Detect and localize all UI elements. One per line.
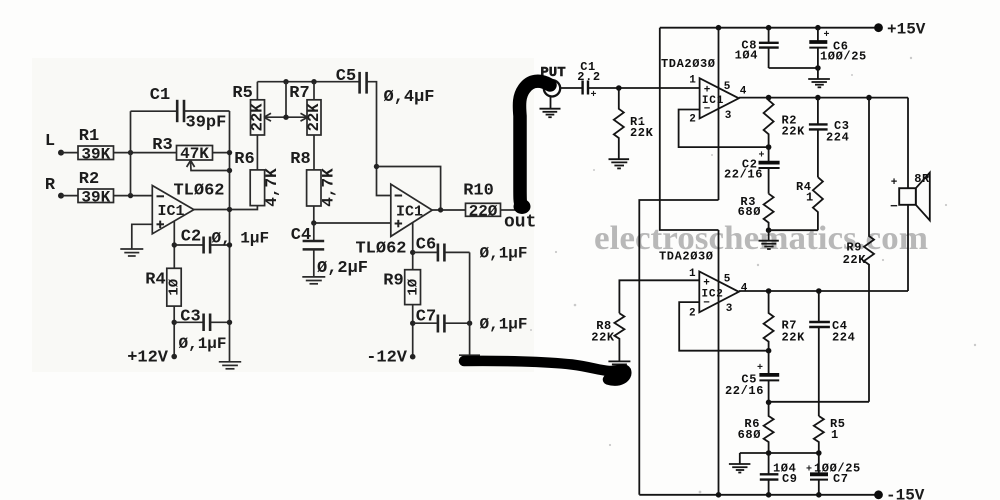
svg-text:3: 3: [726, 303, 733, 315]
speaker labels: [890, 172, 930, 214]
svg-text:1Ø: 1Ø: [167, 278, 183, 295]
resistor R5 labels: [830, 417, 846, 442]
resistor R4 label: [145, 271, 165, 290]
junction dot C3 tap: [172, 320, 177, 325]
node L label: [45, 132, 55, 151]
svg-text:R10: R10: [463, 182, 494, 201]
IC2 label TDA2030: [659, 250, 714, 264]
svg-text:out: out: [504, 213, 536, 233]
ground under R3: [759, 230, 779, 249]
capacitor C6 electrolytic: [809, 28, 829, 68]
svg-text:-12V: -12V: [366, 349, 408, 368]
svg-text:5: 5: [724, 81, 731, 93]
svg-text:TLØ62: TLØ62: [173, 182, 224, 201]
wire R3 right: [213, 152, 230, 154]
wire vertical bus x=229.5: [229, 111, 231, 362]
capacitor C8: [759, 28, 779, 68]
wire IC1 pin2 feedback loop: [679, 110, 769, 148]
node X junction dot: [128, 150, 133, 155]
svg-text:R2: R2: [79, 170, 99, 189]
svg-text:1: 1: [689, 268, 696, 280]
C6 value 0,1µF: [480, 245, 528, 263]
node +15V terminal: [874, 21, 926, 39]
svg-text:−: −: [890, 199, 898, 214]
svg-text:8R: 8R: [914, 172, 930, 186]
resistor R2 zigzag: [764, 98, 774, 147]
svg-text:−: −: [703, 298, 710, 310]
wire speaker bottom to IC2 output: [907, 205, 909, 291]
IC1 pin and body labels: [689, 75, 746, 126]
resistor R2 labels: [782, 114, 806, 139]
capacitor C5 labels: [725, 373, 764, 399]
resistor R7 zigzag: [764, 291, 774, 351]
svg-text:+: +: [757, 363, 763, 374]
svg-text:+: +: [891, 177, 898, 189]
wiper arrowhead into R5: [264, 113, 271, 121]
resistor R9 box: [405, 270, 422, 305]
svg-text:1: 1: [689, 75, 696, 87]
svg-text:5: 5: [724, 274, 731, 286]
capacitor C6 labels: [820, 40, 867, 64]
wiper arrowhead into R7: [301, 113, 308, 121]
C2 value 0,1µF: [212, 230, 270, 248]
wire R input to R2: [61, 195, 78, 197]
junction dot C2 tap: [172, 242, 177, 247]
wire R2 to op-amp inverting input: [114, 195, 153, 197]
junction dot C7 right: [467, 321, 472, 326]
input terminal circle: [544, 80, 560, 96]
ground left of C9: [729, 453, 751, 473]
svg-text:R3: R3: [152, 136, 172, 155]
capacitor C2 labels: [724, 158, 763, 182]
resistor R8 4,7K box: [307, 168, 338, 207]
svg-text:TDA2Ø3Ø: TDA2Ø3Ø: [661, 57, 716, 71]
svg-text:22K: 22K: [782, 125, 806, 139]
wire vertical X to X2: [130, 111, 132, 195]
capacitor C4 plates: [303, 223, 325, 277]
resistor R9 label: [383, 272, 403, 291]
wire C8 to C6 ground link: [769, 65, 821, 71]
svg-text:Ø,1µF: Ø,1µF: [480, 245, 528, 263]
wire IC1 pin3 to -15V rail: [639, 200, 718, 495]
capacitor C3 label: [180, 307, 200, 326]
ground under C6 C7 bus: [459, 355, 480, 363]
capacitor C5 plates: [360, 72, 367, 94]
junction dot output on bus: [227, 207, 232, 212]
wire rail down to IC2 pin5 jog: [660, 28, 719, 230]
svg-text:+: +: [591, 90, 597, 101]
wire R6 top to R5 bottom: [256, 135, 258, 170]
op-amp U1a TL062 triangle: [152, 186, 194, 234]
svg-text:224: 224: [826, 131, 849, 145]
capacitor C5 electrolytic: [757, 351, 779, 403]
svg-text:-15V: -15V: [886, 487, 925, 500]
svg-text:2: 2: [689, 114, 696, 126]
capacitor C4: [809, 291, 830, 416]
capacitor C1 plates: [177, 100, 184, 122]
node -12V terminal: [366, 349, 415, 368]
capacitor C9: [760, 453, 779, 495]
wire wiper line R5 R7: [265, 82, 308, 118]
resistor R5 zigzag: [814, 416, 824, 453]
capacitor C6: [413, 244, 470, 262]
wire +15V top rail: [660, 27, 875, 29]
svg-text:R9: R9: [383, 272, 403, 291]
junction dot pin2 node: [766, 144, 772, 150]
resistor R1 zigzag: [614, 88, 624, 159]
svg-text:C3: C3: [180, 307, 200, 326]
wire IC2 output line: [739, 290, 908, 292]
svg-text:1ØØ/25: 1ØØ/25: [820, 50, 867, 64]
resistor R8 labels: [591, 319, 615, 345]
svg-text:39K: 39K: [81, 145, 110, 163]
junction dot C7 tap: [410, 321, 415, 326]
wire feedback to output: [377, 167, 441, 210]
wire C5 right down to inverting input: [368, 82, 391, 196]
svg-text:C2: C2: [181, 228, 201, 247]
wire non-inverting input to ground: [132, 224, 153, 249]
svg-text:R4: R4: [145, 271, 165, 290]
C3 value 0,1µF: [179, 335, 227, 353]
capacitor C7 electrolytic: [810, 453, 828, 495]
wire R4 bottom to +12V: [173, 306, 175, 356]
junction dot C5 R6 R9 node: [766, 400, 772, 406]
ground under C8 C6 link: [808, 68, 830, 87]
wire R9 bottom to C5 node: [769, 401, 869, 403]
resistor R6 zigzag: [764, 402, 774, 453]
resistor R9 labels: [843, 241, 867, 268]
wire R9 bottom to -12V: [412, 305, 414, 357]
C7 value 0,1µF: [480, 316, 528, 334]
left scan tint: [32, 58, 534, 372]
svg-text:+: +: [824, 30, 830, 41]
resistor R4 zigzag: [813, 177, 823, 230]
wire op-amp U1a output: [194, 206, 258, 210]
junction dot node X2: [128, 193, 133, 198]
junction dot R3 R4 ground node: [766, 227, 772, 233]
IC1 label TDA2030: [661, 57, 716, 71]
ground under R8: [608, 361, 630, 367]
resistor R2 label: [79, 170, 99, 189]
capacitor C7: [413, 315, 470, 333]
svg-text:22K: 22K: [591, 331, 615, 345]
resistor R3 label: [152, 136, 172, 155]
resistor R1 labels: [630, 115, 654, 140]
C1 value 39pF: [186, 114, 227, 133]
junction dot C2 right on bus: [227, 242, 232, 247]
wire R8 bottom to op-amp U1b: [314, 206, 391, 223]
svg-text:1Ø: 1Ø: [405, 278, 421, 295]
svg-text:L: L: [45, 132, 55, 151]
wire IC1 output line: [739, 97, 908, 99]
junction dot R3 wiper on bus: [227, 168, 232, 173]
speaker 8R: [899, 173, 930, 221]
op-amp U1b TL062 triangle: [391, 184, 432, 236]
IC2 pin and body labels: [689, 268, 748, 320]
wire C6 C7 right bus to ground: [469, 252, 471, 355]
junction dot feedback node: [374, 164, 379, 169]
resistor R8 zigzag: [614, 313, 624, 361]
svg-text:+12V: +12V: [127, 349, 169, 368]
svg-text:4,7K: 4,7K: [320, 168, 338, 207]
resistor R3 labels: [738, 195, 761, 219]
resistor R6 4,7K box: [250, 168, 281, 207]
svg-text:22/16: 22/16: [724, 168, 763, 182]
svg-text:68Ø: 68Ø: [738, 428, 761, 442]
resistor R6 labels: [738, 417, 761, 442]
wire output to speaker top: [907, 98, 909, 189]
resistor R3 47K trimmer box: [177, 145, 213, 163]
wire C1 right to vertical bus: [185, 110, 230, 112]
svg-text:22K: 22K: [782, 331, 806, 345]
svg-text:C7: C7: [833, 472, 849, 486]
svg-text:22K: 22K: [305, 103, 323, 132]
wire IC2 pin2 feedback loop: [679, 302, 768, 351]
junction dot wiper tap on top rail: [283, 79, 288, 84]
node R terminal dot: [58, 193, 64, 199]
svg-text:IC1: IC1: [396, 204, 423, 221]
resistor R8 label: [290, 150, 310, 169]
wire U1b to C6 R9 branch: [412, 223, 414, 270]
ground under op-amp U1a: [120, 249, 143, 256]
junction dot R7 top on top rail: [311, 79, 316, 84]
wire R6 R5 ground link: [740, 452, 819, 454]
resistor R6 label: [234, 150, 254, 169]
capacitor C2 label: [181, 228, 201, 247]
wire U1a to C2 R4 branch: [173, 221, 175, 268]
svg-text:R8: R8: [290, 150, 310, 169]
capacitor C9 labels: [773, 462, 798, 486]
svg-text:IC1: IC1: [157, 203, 184, 220]
ground under input: [540, 97, 561, 118]
svg-text:1: 1: [831, 428, 839, 442]
resistor R3 zigzag: [764, 194, 774, 231]
resistor R1 label: [79, 127, 99, 146]
capacitor C8 labels: [735, 39, 758, 63]
svg-text:TLØ62: TLØ62: [355, 240, 406, 259]
junction dots on IC2 output: [766, 288, 822, 294]
svg-text:3: 3: [725, 110, 732, 122]
C5 value 0,4µF: [384, 88, 435, 107]
capacitor C7 labels: [806, 462, 861, 486]
junction dot C3 right on bus: [227, 320, 232, 325]
capacitor C7 label: [416, 307, 436, 326]
svg-text:Ø,1µF: Ø,1µF: [480, 316, 528, 334]
junction dot R3 right: [227, 150, 232, 155]
svg-text:R6: R6: [234, 150, 254, 169]
wire top rail to C5: [257, 81, 359, 83]
resistor R4 labels: [796, 180, 814, 205]
capacitor C2 electrolytic: [759, 147, 780, 194]
svg-text:1Ø4: 1Ø4: [735, 49, 758, 63]
ground under C4: [302, 277, 325, 284]
svg-text:4,7K: 4,7K: [263, 168, 281, 207]
svg-text:+15V: +15V: [887, 21, 926, 39]
resistor R10 label: [463, 182, 494, 201]
wire L input to R1: [61, 152, 78, 154]
junction dot C6 tap: [410, 250, 415, 255]
capacitor C6 label: [416, 236, 436, 255]
potentiometer R5 22K box: [249, 100, 267, 135]
op-amp IC1 TDA2030 triangle: [700, 78, 739, 118]
svg-text:2: 2: [689, 308, 696, 320]
wire op-amp U1b output to R10: [432, 209, 465, 211]
marker stroke input link: [514, 81, 551, 214]
op-amp U1b label TL062: [355, 240, 406, 259]
svg-text:47K: 47K: [180, 145, 209, 163]
svg-text:electroschematics.com: electroschematics.com: [594, 220, 928, 257]
junction dot wiper center: [283, 115, 288, 120]
capacitor C3 labels: [826, 119, 850, 145]
wire IC2 pin1 to R8: [619, 280, 699, 313]
wire R1 to node X: [114, 152, 177, 154]
resistor R7 label: [289, 84, 309, 103]
svg-text:1: 1: [806, 191, 814, 205]
wire R5 top stub: [256, 82, 258, 100]
svg-text:4: 4: [740, 86, 747, 98]
svg-text:Ø,1µF: Ø,1µF: [179, 335, 227, 353]
svg-text:39pF: 39pF: [186, 114, 227, 133]
junction dots on output line: [766, 95, 872, 101]
resistor R9 zigzag: [864, 98, 874, 402]
node +12V terminal: [127, 349, 177, 368]
capacitor C4 labels: [832, 319, 855, 345]
svg-text:22/16: 22/16: [725, 384, 764, 398]
wire -15V bottom rail: [639, 494, 874, 496]
wire IC2 pin5 pin3 vertical to -15V: [718, 230, 720, 495]
svg-text:22Ø: 22Ø: [469, 202, 498, 220]
svg-text:−: −: [704, 104, 711, 116]
node out label: [504, 213, 536, 233]
resistor R2 39K box: [78, 188, 114, 206]
svg-text:22K: 22K: [630, 126, 654, 140]
svg-text:R1: R1: [79, 127, 99, 146]
svg-text:+: +: [806, 465, 812, 476]
node INPUT label: [540, 65, 565, 81]
svg-text:C5: C5: [336, 67, 356, 86]
svg-text:4: 4: [741, 283, 748, 295]
svg-text:39K: 39K: [81, 188, 110, 206]
wire R7 bottom to R8 top: [313, 135, 315, 170]
svg-text:Ø,2µF: Ø,2µF: [317, 259, 368, 278]
wire R10 to out: [501, 209, 516, 211]
capacitor C1 plates: [583, 81, 597, 102]
wire C1 left: [131, 110, 177, 112]
svg-text:68Ø: 68Ø: [738, 205, 761, 219]
wire C1 to IC1 pin 1: [589, 87, 700, 89]
junction dot R6 bottom: [766, 450, 772, 456]
scan noise specks: [530, 57, 976, 494]
wire R3 to R4 bottom link: [769, 229, 818, 231]
svg-text:C1: C1: [150, 86, 170, 105]
ground under bus: [219, 362, 241, 369]
wire IC1 pin5 pin3 vertical: [718, 28, 720, 200]
wire R7 top stub: [313, 82, 315, 100]
junction dot R5 bottom: [816, 450, 822, 456]
potentiometer R7 22K box: [305, 100, 323, 135]
svg-text:Ø, 1µF: Ø, 1µF: [212, 230, 270, 248]
ground under R1: [609, 159, 630, 168]
op-amp IC2 TDA2030 triangle: [699, 272, 739, 313]
node L terminal dot: [58, 150, 64, 156]
junction dot output U1b: [438, 207, 443, 212]
node -15V terminal: [874, 487, 925, 500]
node R label: [45, 176, 56, 195]
capacitor C4 label: [291, 226, 311, 245]
op-amp U1a label TL062: [173, 182, 224, 201]
capacitor C5 label: [336, 67, 356, 86]
svg-text:C9: C9: [782, 472, 798, 486]
resistor R4 box: [167, 268, 183, 306]
junction dot IC2 pin2 node: [766, 348, 772, 354]
resistor R10 220 box: [466, 202, 501, 220]
capacitor C3: [174, 314, 229, 332]
resistor R5 label: [232, 84, 252, 103]
resistor R1 39K box: [78, 145, 114, 163]
svg-text:TDA2Ø3Ø: TDA2Ø3Ø: [659, 250, 714, 264]
capacitor C1 label: [577, 60, 600, 84]
svg-text:22K: 22K: [249, 103, 267, 132]
capacitor C2: [174, 237, 229, 254]
C4 value 0,2µF: [317, 259, 368, 278]
capacitor C3: [809, 98, 828, 178]
junction dot input node: [616, 85, 622, 91]
junction dots on top rail: [716, 25, 821, 31]
svg-text:22K: 22K: [843, 253, 867, 267]
svg-text:+: +: [759, 151, 765, 162]
svg-text:224: 224: [832, 331, 855, 345]
resistor R7 labels: [782, 319, 806, 345]
capacitor C1 label: [150, 86, 170, 105]
svg-text:R: R: [45, 176, 56, 195]
wire input to C1: [560, 87, 581, 89]
junction dots on bottom rail: [716, 492, 822, 498]
marker stroke ground link: [464, 361, 627, 381]
junction dot R8 C4: [311, 220, 316, 225]
svg-text:Ø,4µF: Ø,4µF: [384, 88, 435, 107]
R3 wiper arrow: [187, 161, 230, 171]
